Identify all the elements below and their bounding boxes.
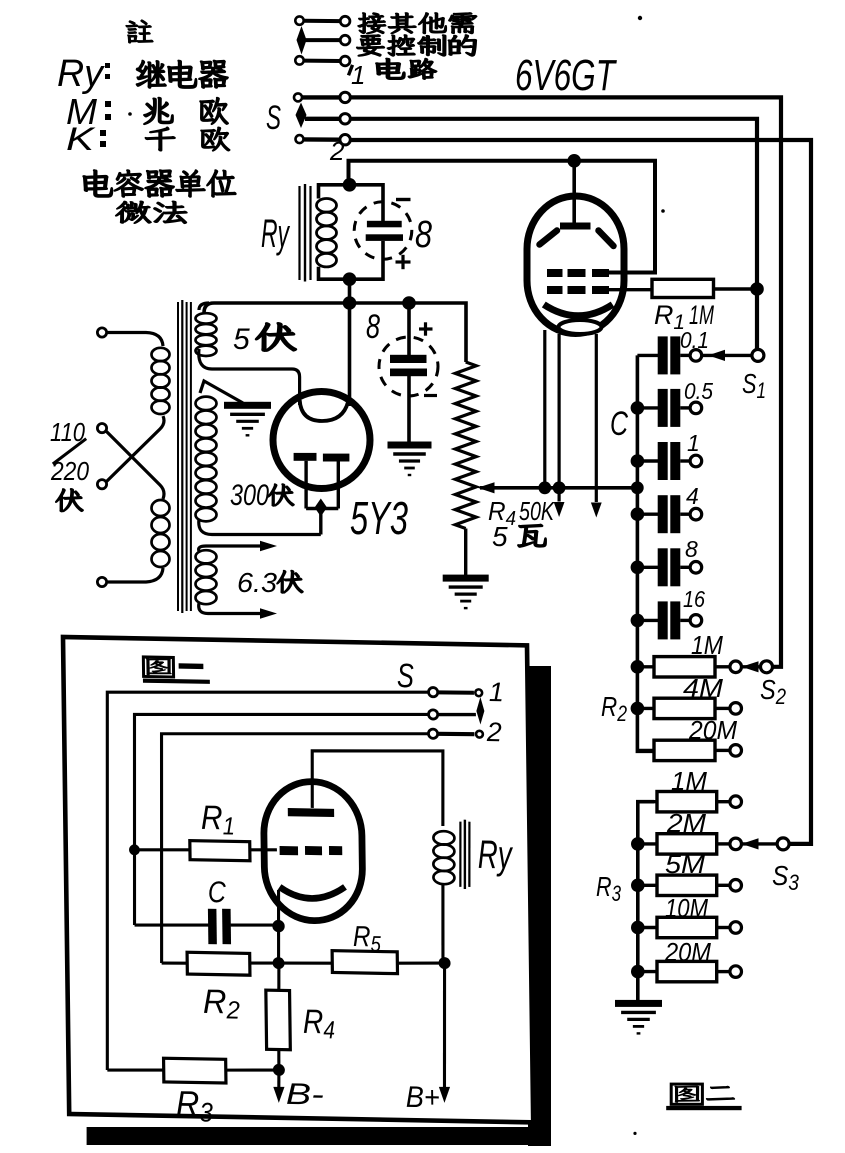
aux switch text 接其他需	[358, 13, 386, 34]
terminal S1	[752, 349, 764, 361]
terminal S2	[761, 661, 773, 673]
tube 6V6GT cathode arc	[544, 305, 613, 316]
wire S2 selector	[742, 665, 762, 668]
arrow S3	[742, 838, 759, 849]
junction bus R3 10M	[631, 921, 645, 935]
junction cathode to wiper wire	[538, 481, 551, 494]
tube 6V6GT heater lead 1	[557, 334, 560, 502]
junction bus R2 4M	[631, 702, 645, 716]
filter cap minus sign	[424, 394, 437, 397]
transformer primary bottom lead	[107, 568, 163, 582]
wire R4 wiper	[480, 486, 637, 490]
wire control grid to R1	[605, 288, 652, 291]
terminal capacitor 0.1	[690, 350, 702, 362]
wire from S contact 2 to S1 column	[350, 119, 757, 356]
tube 6V6GT base ellipse	[559, 320, 602, 334]
filter cap plates	[390, 355, 427, 363]
resistor R1 figure1	[134, 849, 189, 851]
figure1 wire row1	[102, 686, 433, 1076]
svg-text:B-: B-	[286, 1078, 324, 1112]
figure1 cathode lead	[278, 890, 280, 963]
svg-text:5Y3: 5Y3	[350, 492, 408, 544]
transformer 5V top lead	[199, 303, 209, 310]
transformer HV ground lead	[200, 381, 243, 403]
node 5Y3 cathode-return diamond	[315, 499, 327, 517]
wire R1 right	[714, 287, 758, 290]
speck2	[633, 1132, 636, 1135]
figure1 frame	[63, 637, 533, 1122]
resistor R2 4M	[637, 707, 654, 710]
resistor R2 1M	[637, 665, 654, 668]
aux switch wire a1	[304, 19, 341, 23]
figure1 tube grid cap bar	[288, 808, 334, 817]
note capacitor unit text 电容器单位	[83, 170, 112, 197]
resistor R3 20M	[638, 970, 657, 973]
relay Ry coil loops	[317, 199, 337, 267]
tube 6V6GT plate left	[540, 231, 558, 245]
figure1 tube grid dashes	[280, 846, 299, 855]
svg-text:5M: 5M	[665, 849, 705, 879]
svg-text:10M: 10M	[665, 893, 708, 923]
svg-text:20M: 20M	[688, 715, 737, 745]
aux switch text 电路	[376, 58, 404, 79]
junction bus cap 4	[631, 507, 645, 521]
note unit microfarad text 微法	[116, 201, 151, 223]
svg-text:8: 8	[415, 214, 432, 256]
svg-text:50K: 50K	[519, 496, 555, 526]
aux switch contact a3	[295, 56, 303, 64]
terminal R2 1M	[730, 661, 742, 673]
svg-text:4: 4	[686, 483, 699, 509]
junction node grid cap	[567, 154, 581, 168]
caption 图二 glyph	[675, 1086, 699, 1103]
terminal R2 20M	[730, 745, 742, 757]
figure1 blade wedge	[476, 697, 484, 725]
resistor R3 1M	[638, 800, 657, 803]
transformer primary terminal 4	[97, 577, 106, 586]
wire screen grid out	[605, 271, 655, 274]
resistor R1	[652, 279, 714, 297]
junction bus cap 8	[631, 561, 645, 575]
figure1 wire row2	[132, 709, 431, 930]
speck	[638, 16, 642, 20]
junction bus R2 1M	[631, 660, 645, 674]
speck4	[128, 112, 132, 116]
caption underline	[666, 1106, 741, 1110]
resistor R4 figure1	[277, 963, 281, 990]
tube 5Y3 filament arc	[300, 400, 348, 421]
transformer primary cross wire a	[106, 416, 164, 482]
relay Ry figure1 coil	[433, 831, 455, 884]
wire B+ rail	[204, 303, 466, 362]
label 伏 primary	[56, 489, 83, 512]
svg-text:20M: 20M	[664, 937, 711, 967]
svg-text:1: 1	[351, 60, 365, 90]
arrow S2	[742, 661, 759, 672]
resistor R2 20M	[637, 749, 654, 752]
tube 5Y3 envelope	[273, 392, 370, 489]
svg-text:5: 5	[233, 323, 250, 356]
figure1 wire row1b	[438, 690, 474, 695]
svg-text:2M: 2M	[666, 808, 706, 838]
wire grid cap stem	[572, 161, 576, 223]
svg-text:8: 8	[366, 308, 380, 346]
svg-text:1M: 1M	[671, 766, 707, 796]
ground R4	[443, 575, 489, 582]
switch S blade wedge	[296, 103, 307, 129]
switch S contact 3 pole	[340, 135, 350, 145]
junction rail x409	[402, 296, 416, 310]
transformer primary terminal 2	[97, 424, 106, 433]
transformer 5V winding	[196, 313, 217, 323]
capacitor C0.1	[637, 354, 658, 357]
filter cap top lead	[407, 303, 411, 355]
wire relay to grid cap	[349, 161, 656, 273]
capacitor C4	[637, 513, 658, 516]
junction R1 S1 column	[750, 282, 764, 296]
aux switch wire a3	[304, 59, 341, 63]
svg-text:1: 1	[687, 430, 700, 456]
svg-text:1M: 1M	[691, 630, 723, 660]
figure1 Ry bottom wire	[442, 883, 444, 963]
junction bus cap 1	[631, 454, 645, 468]
figure1 terminal row3	[428, 729, 437, 738]
transformer 5V bottom lead	[199, 349, 300, 405]
svg-text:16: 16	[683, 586, 705, 612]
transformer primary terminal 1	[97, 328, 106, 337]
figure1 caption 图 glyph	[146, 658, 171, 675]
terminal R3 10M	[730, 922, 742, 934]
note K colon	[100, 130, 106, 136]
ground HV winding	[224, 402, 271, 409]
transformer primary cross wire b	[106, 431, 164, 499]
caption 二	[706, 1086, 734, 1100]
figure1 caption underline	[143, 679, 210, 684]
capacitor 8 minus sign	[396, 198, 411, 201]
figure1 junction R1 left	[129, 844, 140, 855]
junction bus wiper	[631, 481, 644, 494]
resistor R4 zigzag	[455, 362, 476, 529]
resistor R3 10M	[638, 926, 657, 929]
wire capacitor bus	[637, 355, 654, 751]
note Ry = relay text 继电器	[137, 60, 166, 87]
junction bus cap 16	[631, 614, 645, 628]
note M colon	[105, 101, 111, 107]
tube 6V6GT grid cap bar	[560, 223, 591, 230]
switch S contact 1 pole	[340, 92, 350, 102]
junction rail x349	[343, 296, 357, 310]
svg-text:4M: 4M	[683, 673, 723, 703]
switch S contact 3 left	[296, 135, 304, 143]
transformer primary winding lower	[152, 500, 170, 567]
svg-text:C: C	[208, 876, 227, 909]
tube 6V6GT cathode lead	[543, 330, 546, 488]
capacitor C16	[637, 619, 658, 622]
figure1 B+ wire arrow	[443, 963, 446, 1089]
tube 5Y3 plate stems	[304, 461, 307, 509]
capacitor C figure1	[135, 924, 209, 927]
wire relay bottom to rail	[348, 279, 352, 303]
svg-text:S: S	[266, 99, 281, 137]
figure1 contact 1 terminal	[475, 689, 482, 696]
figure1 tube top wire	[311, 749, 443, 826]
figure1 shadow bottom	[87, 1127, 547, 1145]
svg-text:Ry: Ry	[57, 53, 105, 95]
resistor R4 bottom lead	[464, 529, 467, 576]
svg-text:1M: 1M	[689, 300, 714, 330]
svg-text:0.5: 0.5	[684, 378, 713, 404]
aux switch contact a1	[295, 16, 303, 24]
transformer 6.3V bottom lead with arrow	[199, 603, 262, 614]
svg-text:5: 5	[492, 521, 508, 552]
svg-text:1: 1	[489, 677, 504, 707]
figure1 caption 一	[179, 663, 204, 669]
transformer core	[177, 302, 179, 611]
arrow R4 wiper	[478, 482, 495, 493]
junction bus R3 2M	[631, 837, 645, 851]
figure1 junction center	[273, 957, 285, 969]
figure1 terminal row1	[428, 687, 437, 696]
ground filter cap	[388, 442, 432, 449]
wire R3 bus	[638, 802, 654, 1003]
capacitor C0.5	[637, 406, 658, 409]
comma mark	[349, 65, 353, 75]
figure1 junction B-	[273, 1064, 285, 1076]
tube 6V6GT heater lead 2	[595, 334, 598, 502]
figure1 terminal row3 right	[476, 731, 483, 738]
svg-text:S: S	[397, 657, 415, 695]
terminal R3 5M	[730, 880, 742, 892]
terminal capacitor 8	[690, 562, 702, 574]
wire S3-row short	[304, 137, 340, 142]
terminal R2 4M	[730, 703, 742, 715]
tube 5Y3 plate right	[323, 454, 350, 462]
aux switch contact a2b	[340, 35, 350, 45]
terminal S3	[777, 838, 789, 850]
resistor R5 figure1	[279, 962, 333, 964]
figure1 B- arrow	[277, 1070, 281, 1089]
figure1 wire row3b	[438, 731, 475, 736]
figure1 junction cathode C	[272, 920, 285, 933]
terminal capacitor 1	[690, 455, 702, 467]
junction bus cap 0.5	[631, 401, 645, 415]
figure1 caption 图 box	[143, 657, 173, 677]
figure1 shadow right	[528, 666, 551, 1146]
transformer primary top lead	[107, 333, 163, 347]
note title 註	[126, 20, 153, 43]
capacitor 8 across relay dashed circle	[354, 202, 412, 260]
transformer 300V winding	[196, 397, 217, 411]
aux switch wire a2	[305, 38, 341, 42]
capacitor 8 plus sign	[396, 260, 411, 263]
resistor R3 5M	[638, 884, 657, 887]
terminal R3 20M	[730, 966, 742, 978]
wire S3 selector	[742, 842, 778, 845]
figure1 junction R5 right	[438, 957, 450, 969]
transformer 300V bottom lead	[199, 519, 321, 535]
svg-text:K: K	[66, 121, 96, 157]
svg-text:8: 8	[685, 536, 698, 562]
note K = kilohm text 千欧	[145, 127, 175, 151]
capacitor C8	[637, 566, 658, 569]
svg-text:Ry: Ry	[261, 212, 291, 256]
note Ry colon	[105, 63, 110, 68]
svg-text:6V6GT: 6V6GT	[515, 51, 617, 100]
wire from S contact 1 to S2 column	[350, 97, 781, 666]
relay Ry figure1 core	[460, 822, 462, 887]
switch S contact 1 left	[294, 93, 302, 101]
tube 6V6GT envelope	[527, 196, 624, 334]
arrow S1	[708, 350, 725, 361]
svg-text:2: 2	[486, 717, 502, 747]
svg-text:220: 220	[50, 456, 89, 486]
speck3	[661, 209, 665, 213]
transformer primary winding upper	[152, 348, 170, 414]
wire 5Y3 to HV winding	[319, 509, 322, 535]
transformer primary terminal 3	[97, 480, 106, 489]
transformer 6.3V top lead with arrow	[199, 546, 262, 551]
capacitor C1	[637, 459, 658, 462]
wire S2-row short	[305, 117, 340, 121]
filter cap bottom lead	[407, 376, 411, 442]
note M = megohm text 兆欧	[144, 98, 173, 125]
tube 6V6GT screen grid dashes	[547, 269, 563, 277]
switch S contact 2 pole	[340, 114, 350, 124]
svg-text:C: C	[610, 405, 628, 443]
caption 图二 box	[671, 1084, 702, 1104]
aux switch contact a3b	[340, 56, 350, 66]
label slash	[53, 439, 86, 464]
tube 6V6GT plate right	[599, 231, 614, 247]
terminal capacitor 16	[690, 615, 702, 627]
tube 6V6GT control grid dashes	[547, 286, 563, 294]
junction bus R3 5M	[631, 879, 645, 893]
terminal R3 2M	[730, 838, 742, 850]
resistor R3 2M	[638, 842, 657, 845]
figure1 terminal row2	[428, 710, 437, 719]
svg-text:6.3: 6.3	[237, 567, 277, 598]
wire S1-row short	[302, 95, 340, 99]
resistor R3 figure1	[107, 1069, 163, 1071]
resistor R2 figure1	[162, 961, 188, 965]
svg-text:B+: B+	[406, 1081, 440, 1115]
wire from S contact 3 to S3 column	[350, 140, 811, 844]
figure1 tube envelope	[263, 781, 363, 922]
relay loop wires	[319, 185, 384, 221]
tube 5Y3 stem join	[306, 507, 338, 510]
figure1 tube cathode arc	[280, 886, 346, 899]
terminal R3 1M	[730, 796, 742, 808]
junction bus R3 20M	[631, 965, 645, 979]
transformer 6.3V winding	[196, 550, 217, 563]
capacitor 8 plates	[367, 221, 402, 228]
svg-text:300: 300	[230, 479, 269, 512]
aux switch blade wedge	[297, 26, 307, 55]
relay Ry core	[298, 186, 300, 280]
figure1 wire row3	[159, 729, 431, 968]
tube 5Y3 plate left	[294, 453, 317, 461]
junction relay bottom	[343, 272, 357, 286]
aux switch contact a1b	[340, 16, 350, 26]
ground R3 bank	[615, 1000, 662, 1007]
terminal capacitor 0.5	[690, 402, 702, 414]
terminal capacitor 4	[690, 508, 702, 520]
junction relay top	[343, 178, 357, 192]
filter cap plus sign	[419, 327, 433, 330]
filter cap dashed circle	[379, 337, 438, 396]
svg-text:Ry: Ry	[477, 833, 514, 878]
svg-text:0.1: 0.1	[680, 327, 709, 353]
wire rail to 5Y3 plate	[348, 303, 352, 406]
aux switch text 要控制的	[357, 35, 384, 56]
wire S1 selector	[702, 354, 752, 357]
